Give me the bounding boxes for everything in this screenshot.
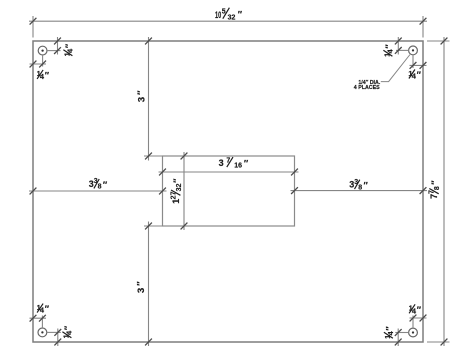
svg-text:″: ″ <box>430 180 440 185</box>
svg-text:″: ″ <box>385 326 395 331</box>
dimension 3 top (plate top to cutout top) <box>136 37 163 161</box>
svg-text:″: ″ <box>64 43 74 48</box>
svg-text:32: 32 <box>176 183 183 191</box>
dimension 10 5/32 overall width <box>29 8 427 38</box>
svg-text:″: ″ <box>103 180 108 190</box>
svg-text:″: ″ <box>45 71 50 81</box>
dimension 3 7/16 cutout width <box>159 157 299 175</box>
svg-text:3: 3 <box>136 288 147 293</box>
hole bottom-left <box>38 328 47 337</box>
dimension 1/4 top-left hole horizontal offset <box>30 55 50 81</box>
dimension 7 7/8 overall height <box>427 37 450 346</box>
dimension 1/4 bottom-left hole vertical offset <box>47 325 74 346</box>
dimension 1/4 top-left hole vertical offset <box>47 37 75 56</box>
svg-text:″: ″ <box>238 9 243 19</box>
svg-text:8: 8 <box>98 184 102 191</box>
dimension 1/4 top-right hole horizontal offset <box>408 55 426 81</box>
svg-text:8: 8 <box>358 184 362 191</box>
svg-text:″: ″ <box>364 181 369 191</box>
dimension 1/4 bottom-left hole horizontal offset <box>30 303 50 328</box>
hole top-left <box>38 46 47 55</box>
svg-text:″: ″ <box>172 178 182 183</box>
dimension 3 3/8 right <box>291 179 428 194</box>
svg-text:″: ″ <box>417 70 422 80</box>
svg-text:″: ″ <box>244 159 249 169</box>
svg-text:3: 3 <box>137 97 148 102</box>
leader note 1/4 DIA 4 PLACES <box>354 55 410 92</box>
plate outline <box>33 41 423 342</box>
hole bottom-right <box>409 328 418 337</box>
svg-text:″: ″ <box>45 304 50 314</box>
dimension 1/4 bottom-right hole vertical offset <box>383 326 408 346</box>
dimension 1/4 bottom-right hole horizontal offset <box>409 304 427 329</box>
svg-text:10: 10 <box>215 10 221 20</box>
dimension 3 bottom (cutout bottom to plate bottom) <box>135 222 162 347</box>
svg-text:″: ″ <box>136 90 147 95</box>
center cutout rectangle <box>163 156 295 226</box>
svg-text:″: ″ <box>417 305 422 315</box>
svg-text:8: 8 <box>434 186 441 190</box>
svg-text:4 PLACES: 4 PLACES <box>354 85 380 91</box>
svg-text:″: ″ <box>384 44 394 49</box>
svg-text:3: 3 <box>219 158 224 168</box>
dimension 1/4 top-right hole vertical offset <box>383 37 409 57</box>
svg-text:″: ″ <box>135 281 146 286</box>
dimension 3 3/8 left <box>29 178 167 194</box>
svg-text:32: 32 <box>228 14 236 21</box>
svg-text:16: 16 <box>234 162 242 169</box>
hole top-right <box>409 46 418 55</box>
dimension 1 27/32 cutout height <box>171 152 188 230</box>
svg-text:″: ″ <box>63 325 73 330</box>
